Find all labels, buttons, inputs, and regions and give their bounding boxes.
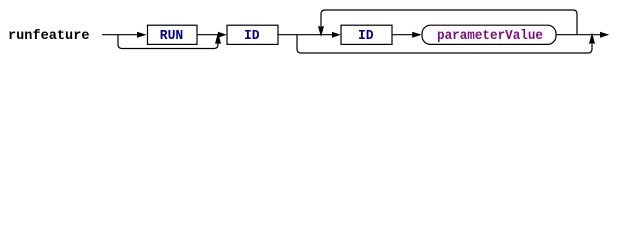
- arrow up joining main line before final arrow: [589, 33, 595, 44]
- wire: ID to optional group split: [278, 34, 332, 36]
- svg-text:ID: ID: [244, 29, 260, 44]
- wire: entry line into diagram: [102, 34, 137, 36]
- arrow into RUN terminal: [137, 32, 147, 38]
- svg-text:ID: ID: [358, 29, 374, 44]
- arrow down joining main line before second ID: [318, 26, 324, 37]
- arrow into ID terminal: [218, 32, 227, 38]
- arrow: final exit arrow: [600, 32, 609, 38]
- terminal box RUN: [148, 25, 198, 44]
- wire: repetition loop back over ID parameterValue: [321, 10, 577, 35]
- nonterminal rounded box parameterValue: [422, 25, 556, 44]
- wire: skip loop bypassing parameter group (optional): [297, 35, 592, 53]
- wire: parameterValue to exit: [556, 34, 600, 36]
- svg-text:parameterValue: parameterValue: [437, 29, 543, 44]
- arrow into second ID terminal: [332, 32, 341, 38]
- arrow up joining main line after RUN: [215, 33, 221, 44]
- wire: skip loop bypassing RUN (optional): [118, 35, 218, 49]
- arrow into parameterValue nonterminal: [412, 32, 422, 38]
- wire: ID to parameterValue: [392, 34, 412, 36]
- svg-text:RUN: RUN: [160, 29, 184, 44]
- terminal box ID (second): [341, 25, 392, 44]
- wire: RUN to ID junction: [197, 34, 218, 36]
- terminal box ID: [227, 25, 278, 44]
- svg-text:runfeature: runfeature: [8, 28, 90, 44]
